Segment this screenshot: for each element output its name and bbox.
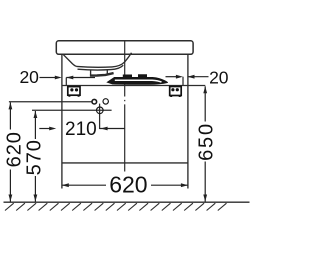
svg-text:620: 620 bbox=[109, 171, 147, 197]
dimension 20 right bbox=[166, 76, 209, 78]
cabinet left side bbox=[61, 54, 63, 188]
svg-text:570: 570 bbox=[23, 139, 45, 175]
wall mounting line bbox=[62, 85, 205, 87]
right short extension line bbox=[182, 77, 184, 86]
crosshair circle bbox=[97, 107, 104, 114]
cabinet bottom bbox=[62, 162, 188, 164]
ground hatching bbox=[5, 203, 227, 210]
dimension 210 bbox=[39, 128, 124, 130]
reference line B (570 / crosshair level) bbox=[32, 109, 112, 111]
svg-text:650: 650 bbox=[195, 122, 217, 161]
dimension 650 vertical right bbox=[204, 86, 206, 201]
svg-text:20: 20 bbox=[209, 67, 229, 87]
left bracket bbox=[68, 87, 80, 97]
dimension 620 vertical left bbox=[9, 102, 11, 201]
bowl bottom upper line bbox=[77, 53, 132, 68]
right bracket bbox=[170, 87, 182, 98]
svg-text:20: 20 bbox=[19, 67, 39, 87]
dimension 20 left bbox=[40, 77, 96, 79]
center line bbox=[124, 41, 126, 172]
bowl left slant bbox=[63, 55, 76, 67]
right fixing hole circle bbox=[103, 99, 108, 104]
reference line A (620 level) bbox=[9, 101, 92, 103]
crosshair vertical / 210 extension bbox=[99, 104, 101, 129]
svg-text:210: 210 bbox=[65, 119, 97, 140]
ground line bbox=[4, 201, 250, 203]
left short extension line bbox=[65, 78, 67, 86]
drain stub bbox=[91, 70, 108, 75]
svg-text:620: 620 bbox=[4, 131, 26, 167]
cabinet right side bbox=[187, 54, 189, 188]
basin top rect bbox=[56, 41, 193, 55]
dimension 620 bottom bbox=[62, 184, 188, 186]
left fixing hole circle bbox=[92, 99, 97, 104]
siphon inner white sliver bbox=[115, 80, 162, 82]
dimension 570 vertical bbox=[34, 111, 36, 202]
siphon silhouette bbox=[106, 74, 168, 85]
bowl bottom lower line bbox=[78, 65, 124, 70]
